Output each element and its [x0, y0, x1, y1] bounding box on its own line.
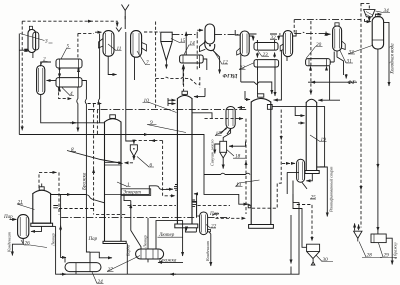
node V mouth between 11 and 7: [116, 28, 122, 32]
wire leader 17: [215, 129, 227, 136]
svg-text:Пар: Пар: [88, 237, 98, 242]
wire vessel2 top: [41, 62, 51, 66]
svg-text:24: 24: [98, 278, 104, 285]
svg-text:25: 25: [311, 195, 317, 201]
wire dashed box below hx4: [59, 87, 72, 99]
svg-text:33: 33: [349, 50, 355, 56]
wire dashed y108.8 short: [88, 103, 102, 105]
svg-text:14: 14: [190, 40, 196, 47]
wire vessel25 bottom leader line: [302, 182, 307, 189]
wire vessel17 to separator18: [223, 129, 230, 142]
wire dashdot y19.6 right: [294, 19, 360, 21]
node Эпюрат callout box: [121, 189, 150, 196]
svg-text:Лютер: Лютер: [51, 233, 56, 247]
svg-text:17: 17: [216, 131, 222, 137]
svg-text:32: 32: [271, 35, 277, 41]
wire HX20 bottom stubs: [310, 67, 312, 71]
wire colX dome top feed from right: [318, 99, 340, 101]
wire leader 10: [143, 102, 177, 113]
svg-text:в бражку: в бражку: [393, 242, 398, 259]
wire bottom long line: [56, 194, 299, 274]
node arrow on y122.8: [70, 122, 76, 124]
wire dashed funnel30 branch: [297, 205, 312, 242]
svg-text:Холодная вода: Холодная вода: [391, 43, 396, 75]
wire HX22 to HX23 risers: [256, 53, 258, 58]
HX 5: [56, 59, 82, 70]
wire column10 top nozzle lines: [168, 99, 176, 101]
wire dashed into vessel25: [282, 162, 290, 164]
wire leader 25: [310, 198, 316, 200]
svg-text:Конденсат: Конденсат: [205, 241, 210, 262]
wire leader 28: [359, 242, 382, 258]
wire leader 6: [137, 157, 154, 168]
wire vessel11 feed arrow: [95, 31, 102, 33]
wire dashed x93.5 riser: [93, 104, 95, 215]
wire dashed to col13 base: [216, 217, 246, 219]
HX 22 bottom: [254, 60, 279, 70]
wire vessel26 bottom Конденсат: [12, 238, 23, 255]
wire dashed col10 right y205.4: [198, 204, 231, 206]
funnel 15: [161, 32, 172, 65]
svg-text:6: 6: [150, 163, 153, 169]
svg-text:Ректификованный спирт: Ректификованный спирт: [329, 167, 334, 213]
wire col13 right to x324.5 down to colX base: [272, 107, 324, 167]
wire dashed x118 top: [124, 16, 126, 21]
wire ФГ line: [308, 81, 357, 83]
wire dashdot battery limit y217.6: [61, 217, 197, 219]
wire vessel31 top cap: [335, 23, 339, 26]
tank 21: [31, 187, 53, 227]
wire Эпюрат outlet: col1 tray to col10: [121, 186, 171, 195]
funnel 34: [364, 10, 375, 22]
wire dashed x281 drop: [252, 110, 281, 209]
wire col13 base region riser x291: [290, 215, 292, 264]
svg-text:26: 26: [25, 241, 31, 247]
wire vessel I pocket down to notch line: [240, 55, 242, 83]
wire col1 bottom outlet Барда down to waste line: [126, 244, 128, 275]
wire vessel3 square to left pipe: [19, 49, 28, 51]
wire Эпюрат box to riser: [124, 195, 131, 200]
wire col13 top feed from HX22: [274, 67, 276, 96]
wire col10 upper right into col: [194, 193, 197, 195]
wire vent Y symbol: [122, 5, 130, 15]
wire col33 right nozzle cooling water down: [384, 22, 389, 86]
wire vessel H top feed: [197, 29, 203, 31]
svg-text:Сивушн. масло: Сивушн. масло: [210, 140, 215, 167]
svg-text:Эпюрат: Эпюрат: [123, 191, 141, 196]
wire leader 9: [147, 125, 186, 133]
wire HX14 bottom stubs: [183, 65, 185, 69]
svg-text:Пар: Пар: [209, 212, 219, 217]
HX 4: [56, 78, 82, 87]
wire vessel17 right feed: [238, 107, 245, 109]
vessel L: [280, 31, 292, 57]
wire branch x295 into col19: [295, 107, 304, 116]
HX 27: [136, 249, 164, 259]
wire hx27 bottom Бражка: [158, 261, 183, 263]
column 10 (колонна S): [175, 91, 198, 228]
wire leader 13: [236, 180, 260, 187]
wire dashed vessel7 to x155.5: [144, 31, 160, 33]
wire HX14 right end down: [203, 59, 207, 70]
wire leader 30: [316, 255, 333, 262]
svg-text:10: 10: [144, 98, 150, 104]
wire leader 3: [20, 34, 53, 44]
wire Пар arrow at col13: [213, 214, 220, 216]
wire tank21 top cap line: [41, 184, 43, 187]
wire tee down to HX24: [61, 195, 66, 258]
HX 23 top: [254, 40, 278, 50]
vessel I: [237, 31, 250, 56]
wire x99.5 pipe (left of column1) with hop: [99, 34, 100, 123]
node col10 left flange: [174, 185, 177, 191]
node arrow y134.5: [142, 134, 148, 136]
svg-text:3: 3: [45, 39, 48, 45]
wire col10 right flange stack: [193, 200, 197, 207]
wire HX14 left bottom riser: [182, 65, 184, 85]
vessel 7: [131, 31, 147, 58]
svg-text:8: 8: [71, 147, 74, 153]
svg-text:Бражка: Бражка: [83, 172, 88, 191]
funnel 30: [307, 244, 320, 265]
svg-text:4: 4: [70, 90, 73, 97]
svg-text:Лютер: Лютер: [143, 235, 148, 249]
wire vessel22 top from dash line: [197, 215, 199, 217]
vessel 25 (AB): [297, 159, 305, 182]
svg-text:Бражка: Бражка: [158, 258, 177, 263]
column 33: [372, 14, 383, 49]
HX 24: [65, 263, 101, 272]
wire dashed top recycle: [22, 21, 117, 26]
wire hx24 left feed: [64, 258, 66, 263]
svg-text:Конденсат: Конденсат: [7, 232, 12, 253]
vessel 31 (O): [333, 26, 346, 51]
wire dashed x78 riser: [77, 33, 79, 59]
node arrow up x61: [60, 226, 62, 232]
wire dashed y33.4 to vessel11: [78, 32, 94, 34]
svg-text:12: 12: [223, 60, 229, 66]
wire col10 base outlet stubs: [185, 228, 196, 232]
wire dashed x361 big vent: [360, 3, 362, 228]
vessel 12 (H): [205, 24, 215, 51]
svg-text:ФГВД: ФГВД: [223, 74, 238, 80]
wire col13 dome left arrow: [245, 99, 250, 101]
wire leader 4: [62, 88, 74, 96]
column 1 (эпюрационная колонна): [103, 115, 126, 244]
wire left main feed down: [18, 34, 20, 135]
wire leader 27: [107, 256, 140, 272]
vessel 22 (паровой): [200, 212, 211, 235]
wire vessel22 drain to Конденсат: [209, 232, 211, 266]
wire dashed box right of col1: [163, 141, 175, 196]
wire dashed top right corner to funnel34: [361, 3, 369, 8]
wire into column10 dome right: [194, 96, 205, 98]
wire col1 label-8 leader: [67, 151, 123, 164]
wire col33 top nozzle left feed from funnel34: [365, 21, 371, 23]
node arrows bottom line: [60, 273, 66, 275]
svg-text:Пар: Пар: [3, 215, 13, 220]
wire leader 34: [376, 11, 391, 13]
wire notch line to column13 dome: [241, 82, 272, 94]
svg-text:ФГ: ФГ: [348, 80, 357, 86]
wire leader 7: [137, 51, 150, 65]
wire col13 right nozzle flange: [267, 105, 272, 110]
wire leader 15: [171, 39, 185, 43]
wire vessel2 bottom to line y122.8: [41, 95, 105, 123]
wire hx27 top Лютер up across boundary: [147, 218, 149, 249]
vessel 17: [221, 107, 236, 135]
wire vessel H pocket to ФГВД: [213, 51, 220, 74]
wire leader 33: [348, 46, 372, 55]
HX 14: [180, 55, 204, 63]
wire vessel12 drain left: [200, 42, 206, 52]
wire leader 22b: [206, 225, 216, 229]
node arrow down x378 mid: [377, 163, 379, 168]
svg-text:30: 30: [323, 257, 329, 263]
svg-text:Лютер: Лютер: [158, 233, 175, 238]
wire hx27 bottom stub: [147, 259, 149, 262]
wire vessel I right to HX23: [249, 36, 253, 41]
wire dashed left drop x22: [21, 21, 23, 130]
wire x78 from hx stub down with hop to long line: [77, 87, 78, 132]
column 13 (ректификационная колонна U): [249, 94, 274, 229]
separator 18: [215, 141, 246, 168]
svg-text:19: 19: [321, 137, 327, 143]
wire hx4 right up to hx5: [78, 68, 80, 78]
wire leader 26: [21, 240, 47, 248]
wire vessel31 bottom drain: [337, 51, 344, 75]
svg-text:11: 11: [117, 46, 122, 52]
wire x55.5 Лютер drop: [53, 225, 56, 227]
wire dashdot y109.6 main: [88, 109, 247, 111]
svg-text:1: 1: [127, 182, 130, 188]
wire hx24 bottom stub: [75, 272, 77, 275]
wire col10 right outlet steps: [192, 201, 197, 217]
wire y82 fgvd line left part: [219, 75, 221, 77]
wire x86 hop and down (Бражка line): [85, 99, 90, 252]
wire y174.5 line hops beyond 18: [203, 174, 206, 176]
wire hx5 to hx4 left: [59, 68, 61, 78]
wire vessel3 bottom down: [32, 53, 34, 58]
wire Пар into vessel26: [10, 218, 17, 220]
wire hx4 left bottom stub: [59, 88, 61, 91]
wire leader 31: [340, 50, 354, 64]
wire dashed x197 vessel H down: [196, 35, 198, 70]
wire vessel I top left: [235, 30, 240, 35]
wire leader 14: [184, 45, 195, 55]
wire vessel L right up: [293, 30, 297, 36]
svg-text:34: 34: [384, 7, 390, 14]
wire leader 8: [71, 151, 77, 153]
wire dashed x155.5: [155, 22, 157, 110]
wire box29 to в бражку: [386, 238, 392, 264]
wire colX base drain to vessel25: [306, 174, 312, 181]
wire vessel L left to HX23: [279, 36, 284, 40]
node Лютер underline: [158, 236, 183, 238]
wire x329.5 riser from HX20: [329, 66, 331, 100]
wire leader 12: [214, 51, 229, 65]
wire long collect line y134.5: [19, 135, 204, 175]
wire tank21 bottom to vessel26: [31, 226, 42, 231]
wire leader 29: [379, 243, 398, 258]
wire hx24 top stub left: [89, 252, 91, 263]
wire col33 bottom stem down to box29: [377, 49, 379, 231]
HX 20: [306, 59, 331, 66]
wire left step to col13 lower feed: [204, 175, 250, 206]
vessel 3: [24, 26, 39, 52]
wire hx27 top-right Лютер loop: [156, 221, 183, 256]
wire vessel11 bottom elbow: [108, 56, 116, 74]
wire leader 23: [258, 51, 269, 57]
wire leader 5: [61, 49, 71, 60]
wire dashed vert x294: [293, 20, 295, 33]
wire dashed funnel15 to col10 dome: [183, 68, 185, 92]
vessel 11: [99, 31, 115, 57]
svg-text:20: 20: [316, 42, 322, 48]
wire dashed x311 drop to col19: [310, 21, 312, 95]
column 19: [305, 99, 319, 173]
wire hx4 left to vessel2: [47, 80, 57, 82]
wire leader 2: [40, 62, 48, 67]
box 29: [371, 234, 386, 243]
svg-text:31: 31: [347, 59, 353, 65]
svg-text:7: 7: [146, 60, 149, 66]
wire right zigzag x287/293: [287, 172, 299, 194]
svg-text:18: 18: [235, 154, 241, 160]
node arrows under col10 base: [186, 229, 188, 231]
wire hx24 top right elbow: [90, 252, 112, 258]
wire leader 24: [92, 272, 104, 284]
wire leader 20: [306, 47, 323, 59]
wire funnel34 right arrow to label line: [375, 13, 382, 15]
wire spirit line from colX base to bottling: [317, 167, 327, 217]
wire leader 18: [227, 150, 247, 159]
wire leader 32: [270, 39, 277, 41]
wire tank21 outlet right to column 1: [51, 195, 105, 203]
funnel 28: [354, 223, 362, 241]
vessel 2: [37, 66, 45, 95]
wire leader 11: [108, 44, 122, 51]
svg-text:15: 15: [180, 38, 186, 44]
vessel 26: [18, 215, 29, 239]
wire leader 22: [239, 63, 255, 70]
wire dashed x246 (col13 reflux): [245, 119, 247, 214]
wire funnel15 stem arrow: [165, 66, 167, 69]
wire leader 21: [17, 204, 35, 210]
wire Эпюрат riser diagonal into hx27: [131, 201, 141, 249]
svg-text:22: 22: [211, 224, 217, 230]
wire vent stem down: [124, 14, 126, 29]
wire HX14 top riser to dashdot: [185, 32, 187, 55]
funnel 6: [130, 145, 137, 160]
wire dashed box at tank21: [39, 172, 57, 188]
wire from mouth down to funnel 6: [126, 32, 134, 144]
svg-text:Барда: Барда: [126, 245, 131, 257]
wire vessel L bottom drains: [274, 51, 287, 101]
wire vessel25 left feeds: [292, 162, 295, 164]
wire leader 1: [117, 182, 131, 187]
wire y174.5 to column13 with hops: [204, 173, 250, 174]
wire HX20 right to vessel31 zone: [330, 52, 334, 63]
svg-text:23: 23: [263, 52, 269, 58]
wire col10 right y113 to col13 reflux dashed: [192, 113, 212, 119]
wire vessel7 bottom down: [134, 57, 136, 80]
wire leader 19: [310, 135, 327, 142]
node col13 side nozzle: [248, 205, 251, 208]
wire hx4 right end over and down x86: [82, 81, 86, 100]
wire dashdot y34.6 upper: [172, 34, 196, 36]
